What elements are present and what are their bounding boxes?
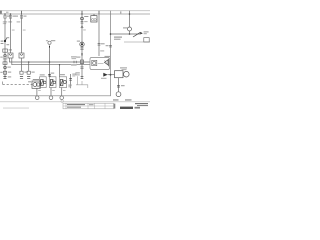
valve N3 circle [63,81,66,84]
title rule [0,101,150,103]
junction N3 feed [59,64,60,65]
connector box C pins [20,54,23,56]
margin text y56 [0,57,2,58]
title text above right 2 [125,99,132,100]
wire label w2 [12,29,15,32]
junction T2a/bus [49,61,51,63]
component K glyph [3,54,7,57]
fuse S1 labels [7,16,10,17]
wire F gauge label [83,29,86,32]
connector ticks V2 [117,85,120,87]
connector box C [19,53,24,58]
connector C2 [20,77,23,79]
legend cell mark [89,104,94,105]
bus rail 30 [0,13,150,15]
branch x28.7 junction [28,61,30,63]
fuse S2 junction [10,13,12,15]
wire label ticks x74 [74,61,76,63]
aux wire x77.5 [77,76,79,85]
connector H1 label [101,43,105,44]
comp F3 chevron [81,26,83,28]
module J label [105,56,111,57]
fuse S1 [4,15,6,18]
connector T2 label [123,27,128,28]
switch E blade [5,37,7,41]
connector H1 ticks [98,44,101,46]
wire B corner to bus 2 [12,58,90,65]
fuse S3 top tick [21,11,23,14]
wire T2 top [129,11,131,27]
wire H x99 [98,14,100,56]
title dark block [120,107,133,109]
connector tick A1 [3,59,7,60]
comp F6 label [76,57,80,58]
switch arrow [140,32,143,35]
switch E contact dot [4,40,6,42]
wire A x5 [4,14,6,79]
module J inner box [92,60,97,65]
module J speaker glyph [104,60,108,65]
pump V2 feed wire [111,74,115,76]
connector F9 end ticks [81,77,84,79]
track number marks [6,12,9,14]
wire T2a down [49,48,51,77]
ground bus line [0,11,111,96]
connector label V2 [121,85,125,86]
comp F2 label [84,20,87,23]
legend text row2 [67,107,81,108]
connector ticks above valve [48,74,51,76]
relay K2 stub [93,14,95,16]
ground circle G1 [35,96,39,100]
aux ticks [69,79,72,81]
connector T2 circle right [128,27,132,31]
comp D1 label [32,72,35,73]
wire label x72 [71,56,77,57]
off-page box right [144,38,149,42]
pump V5 ground wire [36,88,38,96]
control module J box [90,58,110,70]
comp F1 label [84,16,88,17]
branch x28.7 wire [28,62,30,71]
fuse A2 [4,66,7,69]
switch E labels [1,41,4,42]
wire F x82 [81,14,83,79]
valve N3 box [59,77,66,88]
label above valve pair [51,73,55,74]
wire H label [100,50,104,51]
comp F1 circle [81,17,84,20]
legend table [63,103,114,109]
module J inner circle [93,61,96,64]
pump motor V2 label [120,67,127,68]
frame corner mark [0,11,2,14]
relay K2 circle 1 [92,19,94,21]
junction y34 mid [129,33,131,35]
valve N3 element [60,80,63,86]
wire F x82 junction [81,13,83,15]
connector D2 [27,77,30,79]
title text right r1 [135,103,148,104]
connector T2a label [51,40,55,41]
wire B x10.5 [10,14,12,53]
junction T2 rail [129,13,131,15]
component K label [9,49,12,50]
ground circle G2 [49,96,53,100]
valve N3 label [60,74,65,75]
table right mark [114,104,116,109]
pump motor V2 box [115,71,124,78]
feed arrow label [101,78,107,79]
comp F8 label [75,72,79,73]
comp C1 [20,71,23,74]
comp A3 [3,71,6,74]
legend dividers [65,103,67,109]
pump V5 label above [33,79,39,80]
valve N2 circle [53,81,56,84]
valve N1 label [40,74,45,75]
connector ticks x110 [109,45,112,47]
comp F7 box [80,60,83,64]
relay box A [3,62,7,65]
ground stub labels [38,89,41,92]
aux label [72,74,76,75]
connector A4 [3,77,6,79]
wire C lower [21,58,23,71]
valve N1 box [40,77,47,88]
connector A4 label [8,76,11,77]
dashed link hook [2,82,4,85]
valve N2 element [50,80,53,86]
wire F x82 top tick [81,11,83,14]
ground circle right [116,92,121,97]
connector F4 circle [80,42,84,46]
comp A3 label [8,72,11,73]
module J link line [98,63,104,65]
wire B corner to bus 1 [10,58,91,62]
connector box B pins [9,54,12,56]
wire label w3 [23,29,26,32]
connector F4 dot [81,43,83,45]
module J glyph bar [107,59,109,66]
valve N3 feed drop [59,65,61,77]
valve N2 box [49,77,56,88]
comp F5 ticks [80,48,83,50]
legend text row1 [67,104,85,105]
top frame line [0,10,150,12]
switch blade F [133,32,140,37]
fuse S2 [9,15,11,18]
wire C x21.5 [21,14,23,53]
junction y34 left [110,33,112,35]
margin text y72 [0,72,2,73]
aux marks low [68,85,71,86]
feed arrow [103,73,107,77]
aux wire x70.6 [70,74,72,88]
switch label right [144,31,149,32]
switch lower wire [124,41,150,43]
component K box [3,49,8,52]
comp F2 ticks [81,22,84,24]
connector F4 label left [77,41,80,42]
pump V5 label left [28,81,31,82]
pump V5 circle 2 [36,83,39,86]
pump motor V2 circle [124,71,130,77]
title text above right 1 [113,99,119,100]
fuse A2 label [7,67,10,68]
title mark [135,107,141,109]
wire F tail [81,81,83,85]
fuse S3 labels [15,16,18,17]
pump V2 ground wire [118,78,120,92]
fuse S1 junction [4,13,6,15]
fuse S2 labels [13,16,16,17]
connector box B [8,53,13,58]
connector T2a tick [49,46,51,48]
valve N1 circle [44,81,47,84]
connector T2a circle [48,41,51,44]
wire H x99 top tick [98,11,100,14]
switch F label block [114,37,122,38]
pump V5 circle 1 [33,83,37,87]
pump V5 box [32,81,40,88]
wire T2 bottom [129,31,131,34]
feed arrow wire [108,74,111,76]
connector label x110 [106,45,109,46]
relay K2 circle 2 [94,19,96,21]
ground circle G3 [60,96,64,100]
switch wire y34 [111,33,141,35]
fuse S3 [20,15,22,18]
aux link y84.8 [76,85,88,88]
comp C1 label [24,72,27,73]
ground stub G2 [50,88,52,97]
comp D1 [27,71,30,74]
relay K2 box [91,16,97,22]
faint footer left [3,107,29,110]
circled mark [61,100,64,103]
feed junction [110,74,112,76]
ground stub G3 [61,88,63,97]
title text right r2 [137,105,148,106]
valve N1 element [41,80,44,86]
comp F8 ticks [80,67,83,69]
mechanical dashed link [3,84,32,86]
comp F6 tick [81,53,83,56]
